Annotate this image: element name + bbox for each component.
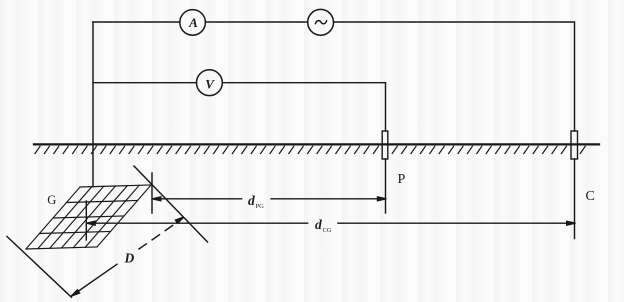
earth surface line — [34, 143, 599, 145]
voltmeter circle — [197, 70, 223, 96]
svg-text:P: P — [398, 172, 406, 187]
wire: top-left vertical (grid riser) — [92, 22, 94, 187]
electrode C body — [571, 131, 578, 159]
dimension line D (diagonal, part dashed) — [71, 217, 183, 296]
svg-text:d: d — [248, 193, 255, 208]
svg-text:G: G — [47, 193, 56, 207]
wire: voltmeter branch left segment — [93, 82, 197, 84]
dimension line dCG — [87, 221, 576, 225]
svg-text:C: C — [586, 189, 595, 204]
AC source circle — [308, 9, 334, 35]
wire: ammeter to AC source — [205, 21, 307, 23]
wire: AC source to right corner and down to electrode C — [334, 22, 575, 131]
earth hatching — [35, 146, 585, 153]
electrode P lower extension line — [385, 159, 387, 213]
dimension line dPG — [152, 197, 386, 201]
diagonal extension line through grid top-right corner — [134, 166, 208, 242]
AC source tilde symbol — [315, 21, 326, 24]
electrode C lower extension line — [574, 159, 576, 239]
diagonal extension line through grid bottom-left corner — [7, 237, 71, 298]
wire: top horizontal, left corner to ammeter — [93, 21, 180, 23]
svg-text:CG: CG — [323, 227, 332, 234]
svg-text:A: A — [188, 15, 198, 30]
svg-text:PG: PG — [256, 203, 265, 210]
grid centre extension line — [85, 201, 87, 240]
svg-text:D: D — [124, 251, 135, 266]
wire: voltmeter to P corner and down to electrode P — [222, 83, 385, 131]
electrode P body — [382, 131, 388, 159]
grid corner vertical extension line — [151, 173, 153, 213]
svg-text:d: d — [315, 217, 322, 232]
ammeter U1 circle — [180, 10, 206, 36]
ground grid G mesh — [26, 185, 151, 249]
svg-text:V: V — [205, 77, 215, 92]
